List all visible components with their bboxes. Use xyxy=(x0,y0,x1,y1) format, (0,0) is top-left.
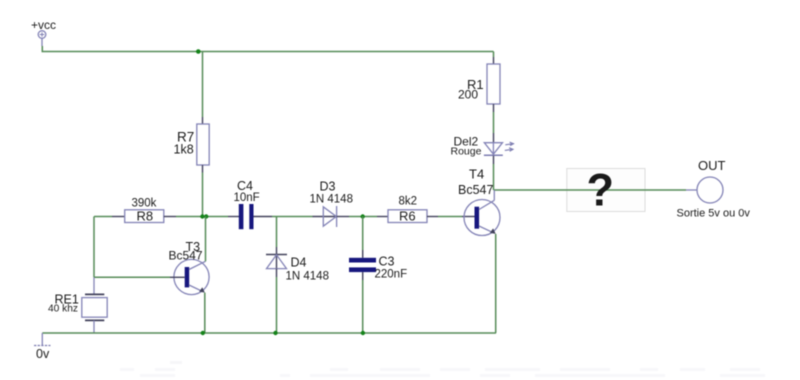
power +vcc xyxy=(31,18,56,46)
wire D3 right lead xyxy=(337,216,349,218)
wire R8 left lead xyxy=(112,216,125,218)
wire vcc rail top xyxy=(42,46,493,52)
node top junction xyxy=(196,49,201,54)
resistor R6 xyxy=(388,196,427,224)
wire D3 to R6 xyxy=(349,216,377,218)
crystal RE1 xyxy=(48,293,107,321)
wire R8 left xyxy=(94,216,112,218)
svg-text:1N 4148: 1N 4148 xyxy=(286,271,329,283)
svg-text:Rouge: Rouge xyxy=(451,146,482,158)
wire D4 bottom lead xyxy=(276,269,278,277)
svg-text:D3: D3 xyxy=(320,180,336,194)
node main junction A xyxy=(200,214,204,218)
ground 0v xyxy=(34,333,51,361)
svg-text:1N 4148: 1N 4148 xyxy=(310,194,353,206)
wire R7 branch down xyxy=(202,52,204,118)
wire R6 right lead xyxy=(427,216,438,218)
wire left branch vertical xyxy=(93,217,95,278)
diode D4 xyxy=(266,255,329,283)
wire OUT lead xyxy=(686,189,697,191)
wire C4 left lead xyxy=(228,216,239,218)
wire C4 right lead xyxy=(254,216,273,218)
faint bottom band xyxy=(120,361,765,377)
wire T4 emitter down xyxy=(495,234,497,333)
node rail C3 xyxy=(361,331,365,335)
wire T3 collector up xyxy=(205,217,207,262)
wire R1 bottom lead xyxy=(493,104,495,112)
capacitor C4 xyxy=(234,179,260,229)
svg-text:Sortie 5v ou 0v: Sortie 5v ou 0v xyxy=(677,208,751,220)
port OUT xyxy=(677,158,751,220)
transistor T3 xyxy=(169,240,210,295)
wire R8 right lead xyxy=(164,216,176,218)
svg-text:0v: 0v xyxy=(36,347,50,361)
svg-text:C4: C4 xyxy=(237,179,253,193)
wire R7 to junction xyxy=(202,173,204,217)
box mystery ? xyxy=(567,169,645,212)
svg-text:Bc547: Bc547 xyxy=(458,183,493,197)
svg-text:40 khz: 40 khz xyxy=(48,304,78,315)
wire R7 top lead xyxy=(202,117,204,124)
capacitor C3 xyxy=(349,255,407,281)
wire R1 to LED xyxy=(493,112,495,133)
svg-text:200: 200 xyxy=(458,88,478,102)
transistor T4 xyxy=(458,167,500,236)
wire R6 left lead xyxy=(377,216,388,218)
wire bottom rail xyxy=(42,332,496,334)
wire RE1 top lead xyxy=(93,277,95,293)
wire LED to collector corner xyxy=(493,156,495,164)
wire T4 base lead xyxy=(462,216,475,218)
wire R1 top lead xyxy=(493,52,495,58)
node main junction B xyxy=(204,214,208,218)
wire R7 bottom lead xyxy=(202,165,204,173)
diode D3 xyxy=(310,180,353,228)
wire R8 to junction xyxy=(176,216,228,218)
wire D3 left lead xyxy=(313,216,337,218)
wire output line xyxy=(494,189,687,191)
wire C3 to bottom rail xyxy=(362,280,364,333)
wire T3 emitter down xyxy=(204,293,206,333)
svg-text:8k2: 8k2 xyxy=(399,196,418,208)
svg-text:?: ? xyxy=(587,165,615,216)
node C3 junction xyxy=(361,214,365,218)
node rail T3 xyxy=(201,331,205,335)
svg-text:1k8: 1k8 xyxy=(174,143,194,157)
wire D4 top lead xyxy=(276,247,278,269)
wire C3 top lead xyxy=(362,250,364,258)
svg-text:C3: C3 xyxy=(379,255,395,269)
wire R6 to T4 base xyxy=(438,216,462,218)
wire RE1 bottom lead xyxy=(93,320,95,333)
node rail D4 xyxy=(273,331,277,335)
svg-text:OUT: OUT xyxy=(698,158,726,173)
svg-text:+vcc: +vcc xyxy=(31,18,56,32)
svg-text:T4: T4 xyxy=(469,167,484,182)
svg-text:R6: R6 xyxy=(399,209,416,224)
resistor R7 xyxy=(174,124,210,165)
resistor R8 xyxy=(125,198,164,224)
LED Del2 xyxy=(451,135,514,158)
wire C3 bottom lead xyxy=(362,272,364,280)
svg-text:R8: R8 xyxy=(137,209,154,224)
svg-text:D4: D4 xyxy=(291,256,307,270)
resistor R1 xyxy=(458,64,500,104)
wire C4 to D3 xyxy=(272,216,313,218)
wire T3 base lead xyxy=(170,276,185,278)
wire T4 collector tap xyxy=(493,190,495,200)
wire C3 branch down xyxy=(362,217,364,251)
svg-text:10nF: 10nF xyxy=(234,192,260,204)
wire T3 base from left xyxy=(94,276,170,278)
wire D4 branch down xyxy=(276,217,278,248)
svg-text:Bc547: Bc547 xyxy=(169,249,203,263)
svg-text:220nF: 220nF xyxy=(375,269,408,281)
wire D4 to bottom rail xyxy=(276,277,278,333)
